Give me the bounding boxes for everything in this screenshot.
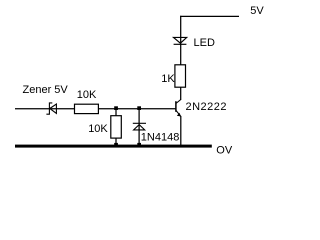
node A junction dot xyxy=(114,106,118,110)
wire 5V top rail xyxy=(180,15,239,17)
resistor R3 10K vertical xyxy=(111,116,122,138)
wire node B drop through D2 1N4148 to 0V rail xyxy=(138,109,140,147)
zener diode ZD1 xyxy=(46,103,56,114)
svg-text:LED: LED xyxy=(194,37,215,49)
resistor R1 1K xyxy=(175,65,186,87)
node R3-rail junction dot xyxy=(114,143,118,147)
svg-text:10K: 10K xyxy=(77,89,97,101)
ground rail 0V xyxy=(15,145,212,148)
resistor R2 10K horizontal xyxy=(75,104,99,113)
wire node A drop to R3 10K xyxy=(115,109,117,117)
svg-text:5V: 5V xyxy=(250,5,264,17)
svg-text:1K: 1K xyxy=(161,73,175,85)
wire base rail from input through zener to Q1 base xyxy=(15,108,176,110)
svg-text:10K: 10K xyxy=(88,123,108,135)
svg-text:2N2222: 2N2222 xyxy=(186,101,228,113)
LED D1 symbol xyxy=(174,37,187,44)
transistor Q1 2N2222 xyxy=(176,100,181,117)
node B junction dot xyxy=(137,106,141,110)
svg-text:Zener 5V: Zener 5V xyxy=(23,84,69,96)
wire emitter Q1 to 0V rail xyxy=(180,116,182,146)
wire R3 10K to 0V rail xyxy=(115,138,117,147)
node D2-rail junction dot xyxy=(137,143,141,147)
wire 5V drop through LED to 1K resistor xyxy=(180,16,182,65)
svg-text:1N4148: 1N4148 xyxy=(141,132,180,144)
svg-text:OV: OV xyxy=(216,144,233,156)
wire 1K resistor to collector Q1 xyxy=(180,87,182,100)
diode D2 1N4148 xyxy=(133,123,146,130)
